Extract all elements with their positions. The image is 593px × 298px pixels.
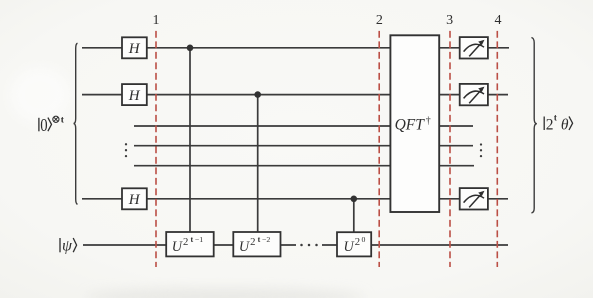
svg-text:U: U — [239, 239, 251, 255]
label ket psi — [60, 238, 77, 255]
label ket 2^t theta — [544, 112, 572, 133]
meter q0 — [460, 37, 488, 58]
svg-text:H: H — [128, 192, 141, 208]
svg-text:θ: θ — [561, 116, 569, 133]
svg-text:H: H — [128, 88, 141, 104]
wire q5 — [82, 198, 508, 200]
svg-text:t: t — [191, 235, 194, 244]
svg-text:−1: −1 — [195, 235, 203, 244]
wire q4 — [134, 165, 474, 167]
svg-text:H: H — [128, 41, 141, 57]
wire control 2 — [257, 95, 259, 240]
left vertical dots — [125, 143, 127, 157]
gate QFT-dagger — [390, 35, 439, 212]
gate U^2^t-1 — [166, 232, 214, 256]
svg-text:QFT: QFT — [395, 116, 426, 133]
svg-text:−2: −2 — [262, 235, 270, 244]
svg-text:3: 3 — [446, 13, 453, 28]
svg-text:U: U — [172, 239, 184, 255]
gate U^2^0 — [337, 232, 371, 256]
svg-text:2: 2 — [183, 236, 188, 248]
wire q2 — [134, 125, 473, 127]
wire q3 — [134, 145, 473, 147]
wire psi segment 1 — [83, 244, 296, 246]
svg-text:U: U — [344, 239, 356, 255]
control dot 3 — [351, 196, 358, 203]
label ket0 tensor t — [39, 114, 65, 135]
svg-text:2: 2 — [355, 236, 360, 248]
control dot 2 — [254, 91, 261, 98]
psi wire ellipsis dots — [300, 244, 318, 247]
svg-text:0: 0 — [362, 235, 366, 244]
svg-text:2: 2 — [376, 13, 383, 28]
svg-text:4: 4 — [495, 13, 502, 28]
right vertical dots — [480, 143, 482, 157]
svg-text:t: t — [554, 112, 557, 122]
svg-text:2: 2 — [250, 236, 255, 248]
right brace — [531, 38, 537, 214]
meter q5 — [460, 188, 488, 209]
svg-text:0: 0 — [40, 114, 47, 135]
wire control 1 — [189, 48, 191, 240]
svg-text:t: t — [258, 235, 261, 244]
barrier dashed line 4 — [496, 31, 498, 267]
barrier dashed line 2 — [378, 31, 380, 267]
barrier dashed line 3 — [449, 31, 451, 267]
gate U^2^t-2 — [233, 232, 280, 256]
barrier dashed line 1 — [155, 31, 157, 267]
svg-text:2: 2 — [546, 116, 554, 133]
wire q0 — [82, 47, 509, 49]
wire psi segment 2 — [322, 244, 508, 246]
left brace — [74, 43, 78, 204]
svg-text:ψ: ψ — [62, 238, 73, 255]
control dot 1 — [187, 45, 194, 52]
gate H q5 — [122, 188, 147, 209]
svg-text:1: 1 — [153, 13, 160, 28]
wire control 3 — [353, 199, 355, 240]
gate H q0 — [122, 37, 147, 58]
gate H q1 — [122, 84, 147, 105]
meter q1 — [460, 84, 488, 105]
svg-text:†: † — [426, 116, 431, 127]
wire q1 — [82, 94, 508, 96]
